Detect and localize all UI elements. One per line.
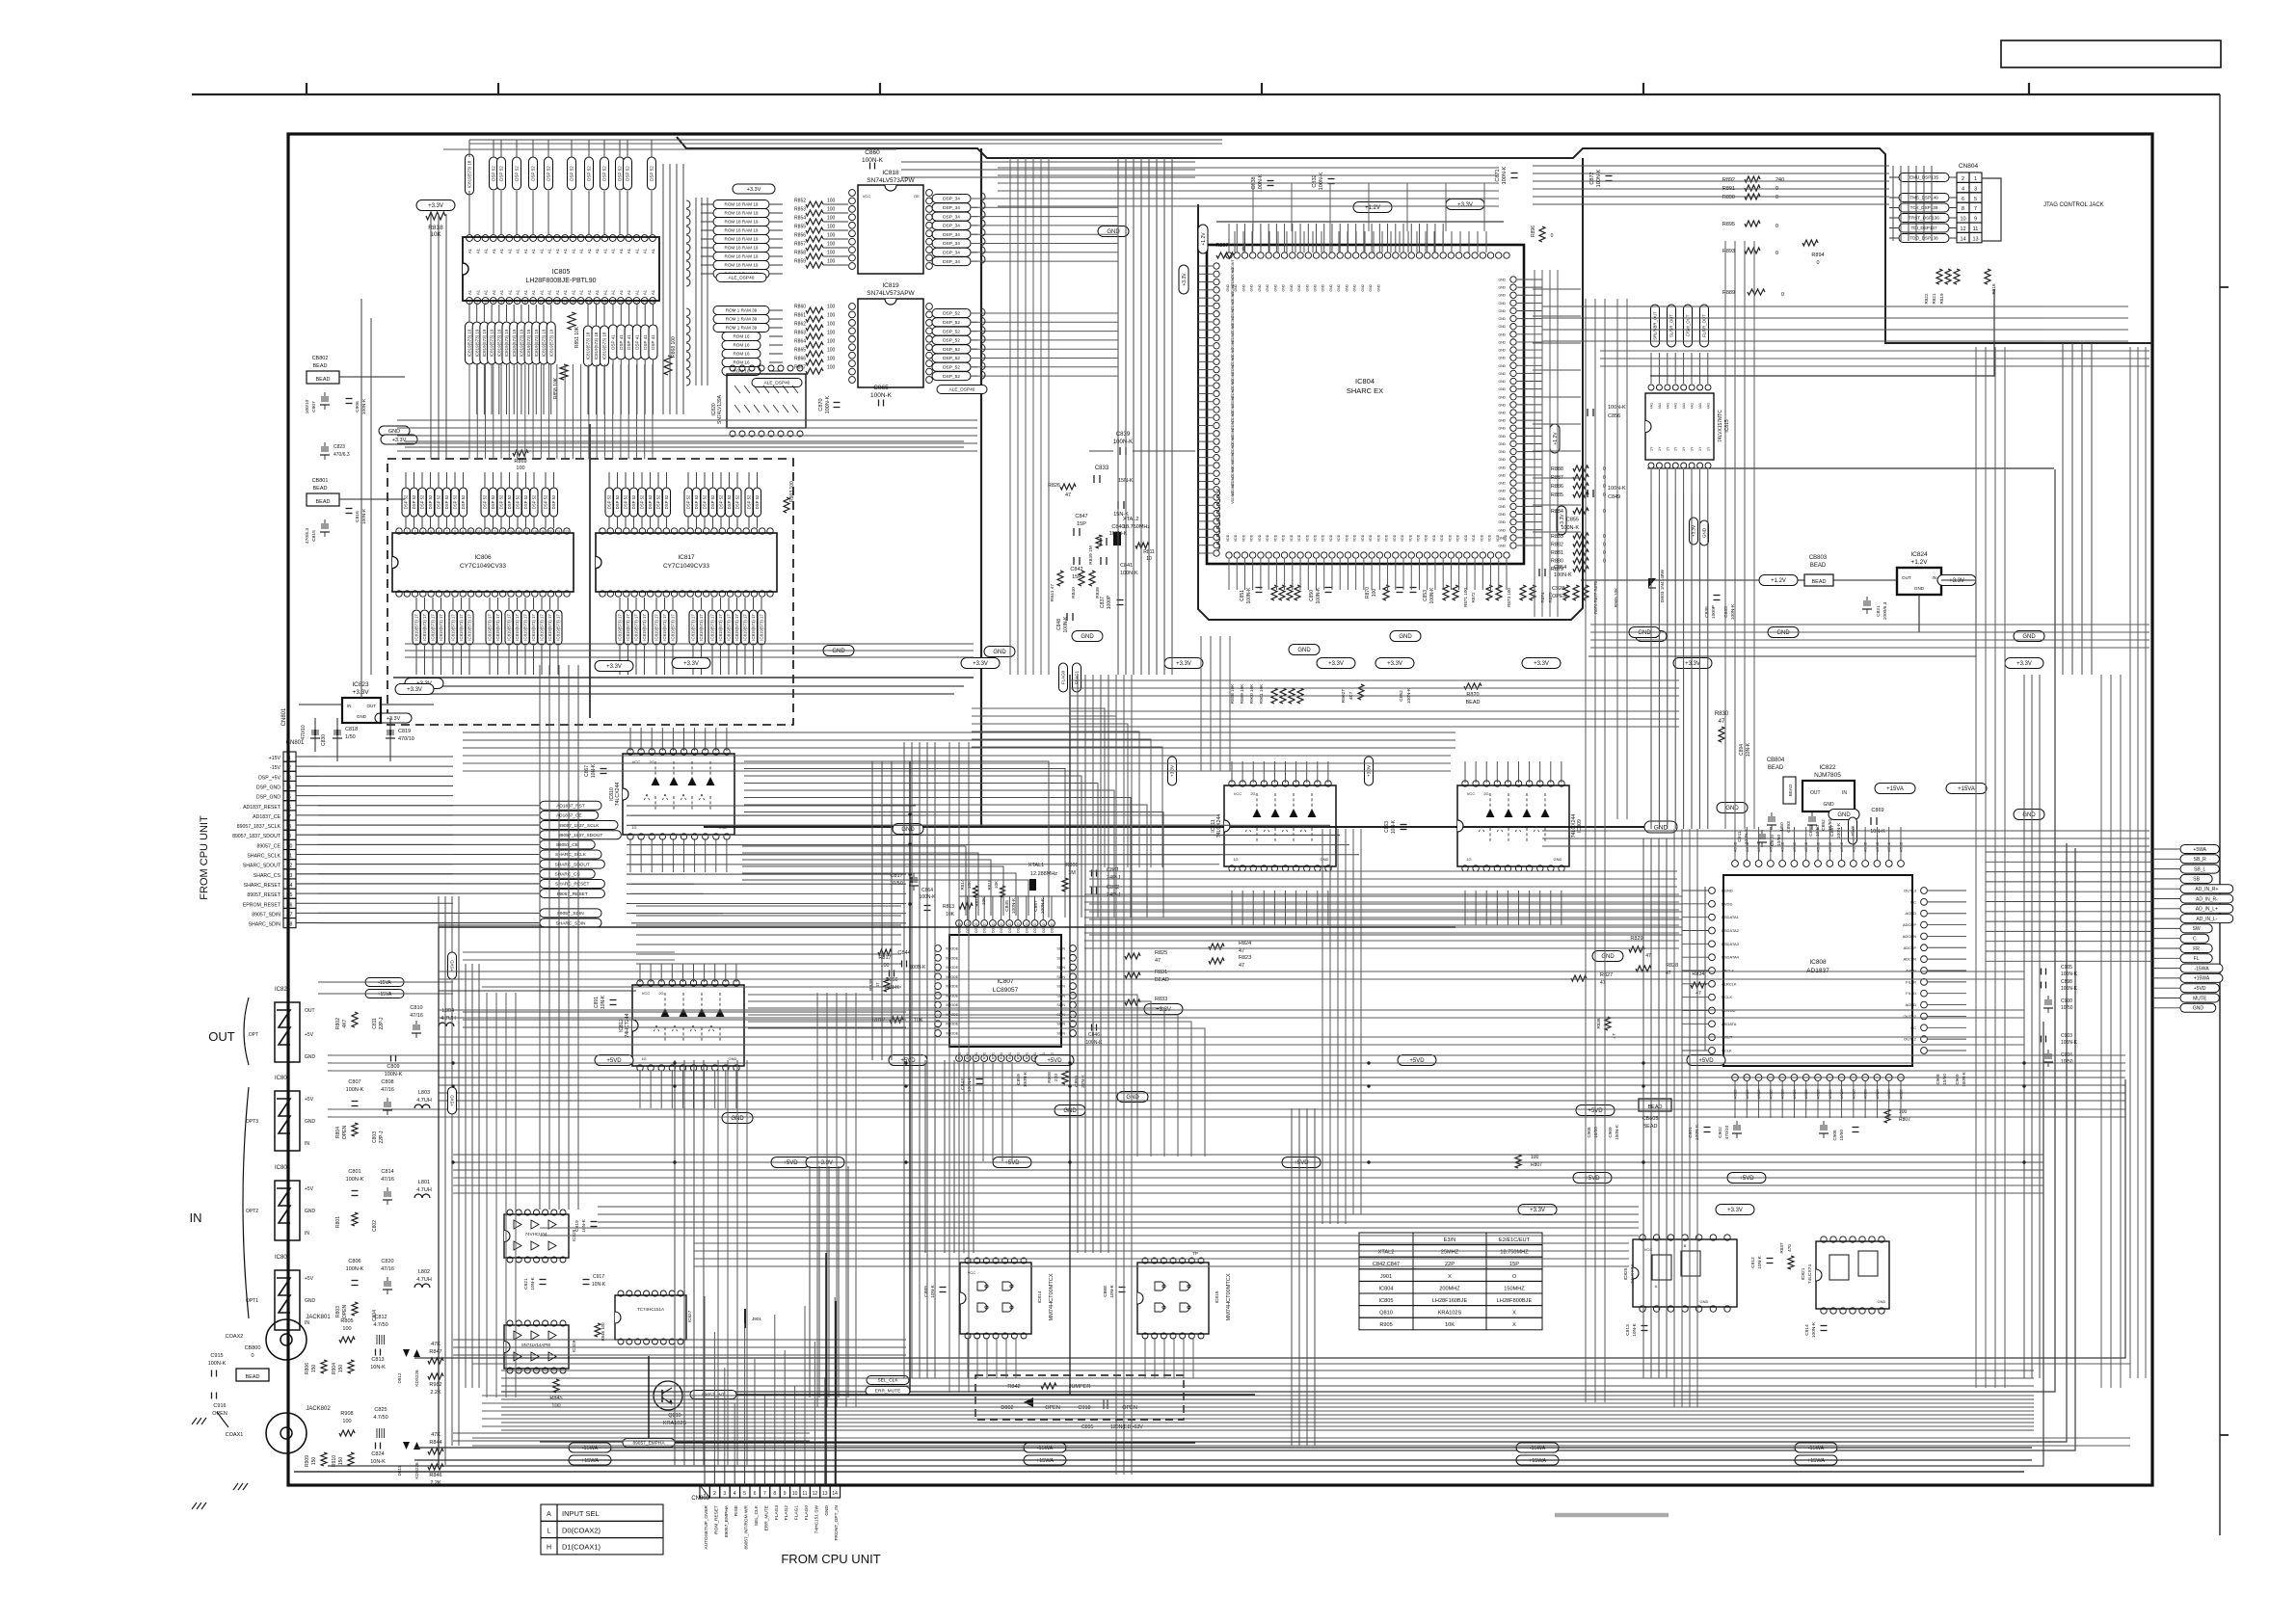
svg-text:470/6.3: 470/6.3 xyxy=(334,452,350,458)
wire cn803 staircase xyxy=(704,1296,706,1465)
svg-text:VDD: VDD xyxy=(1401,534,1404,542)
svg-text:R862: R862 xyxy=(794,322,806,328)
svg-text:DSP 52: DSP 52 xyxy=(515,166,520,181)
wire hbus y1420-1480 xyxy=(501,1370,2034,1371)
svg-text:FLAG0: FLAG0 xyxy=(804,1505,810,1521)
pill 1.2Vl xyxy=(1198,225,1208,253)
svg-text:GND: GND xyxy=(1273,283,1277,291)
svg-text:VDD: VDD xyxy=(1408,534,1412,542)
svg-text:DSP 52: DSP 52 xyxy=(420,494,425,509)
svg-text:ROM 16: ROM 16 xyxy=(733,343,750,348)
svg-text:+15VA: +15VA xyxy=(1886,786,1904,792)
svg-text:GND: GND xyxy=(1399,634,1412,640)
svg-text:4A1: 4A1 xyxy=(1706,403,1710,409)
resistor R807b xyxy=(1515,1155,1521,1168)
svg-text:SHARC_CS: SHARC_CS xyxy=(555,872,580,878)
svg-text:R852: R852 xyxy=(794,199,806,204)
svg-text:100: 100 xyxy=(827,199,836,204)
svg-text:OUT: OUT xyxy=(367,704,377,708)
svg-text:ALRCLK: ALRCLK xyxy=(1722,981,1737,986)
svg-text:ADCLP: ADCLP xyxy=(1904,945,1917,950)
svg-text:GND: GND xyxy=(1498,473,1506,477)
cap C854 xyxy=(1538,569,1540,576)
svg-text:ACND: ACND xyxy=(1887,1089,1891,1100)
svg-text:20: 20 xyxy=(548,530,552,534)
svg-text:DSP_34: DSP_34 xyxy=(943,259,960,265)
svg-text:KRA102S: KRA102S xyxy=(1438,1311,1462,1317)
wire opt outputs right xyxy=(463,1011,906,1013)
svg-text:C845: C845 xyxy=(1004,900,1010,912)
svg-text:C909: C909 xyxy=(1955,1074,1960,1084)
svg-text:C892: C892 xyxy=(1821,819,1827,831)
svg-text:A1: A1 xyxy=(539,289,544,295)
wire sharc left bundle xyxy=(1117,158,1119,675)
svg-text:SN74LV573APW: SN74LV573APW xyxy=(867,290,915,297)
svg-text:CY7C1049CV33: CY7C1049CV33 xyxy=(460,563,506,570)
svg-text:15: 15 xyxy=(509,530,513,534)
pills below IC805 left group xyxy=(466,322,474,364)
svg-text:SRL/SBR_OUT: SRL/SBR_OUT xyxy=(1653,311,1658,340)
svg-text:DSP 52: DSP 52 xyxy=(551,494,556,509)
wire hbus top mem xyxy=(901,161,1195,163)
CN801 net pills xyxy=(540,801,601,810)
svg-text:22P-J: 22P-J xyxy=(379,1131,385,1144)
svg-text:1Y: 1Y xyxy=(1666,446,1669,451)
svg-text:R883: R883 xyxy=(1551,534,1563,540)
svg-text:R831: R831 xyxy=(1155,970,1167,975)
svg-text:FLAG1: FLAG1 xyxy=(1075,670,1080,684)
svg-text:GND: GND xyxy=(1498,286,1506,290)
svg-text:+5VD: +5VD xyxy=(1739,1176,1754,1182)
svg-text:IC803: IC803 xyxy=(275,1255,291,1261)
svg-text:200MHZ: 200MHZ xyxy=(1439,1286,1460,1291)
svg-text:GND: GND xyxy=(1369,283,1373,291)
svg-text:DSP_34: DSP_34 xyxy=(943,224,960,229)
svg-text:AD1837_RESET: AD1837_RESET xyxy=(243,805,281,811)
svg-text:D803 1N4148W: D803 1N4148W xyxy=(1660,569,1666,602)
svg-text:IC819(573) 17: IC819(573) 17 xyxy=(495,614,500,641)
svg-text:+3.3V: +3.3V xyxy=(387,716,401,722)
svg-text:3: 3 xyxy=(484,301,486,305)
svg-text:ROM 18 RAM 19: ROM 18 RAM 19 xyxy=(725,211,759,216)
svg-text:JUMPER: JUMPER xyxy=(1069,1384,1091,1390)
svg-text:IN: IN xyxy=(305,1231,309,1237)
resistor R897 xyxy=(1216,253,1234,258)
svg-text:R881: R881 xyxy=(1551,550,1563,556)
wire vbus 2100-2160 xyxy=(2023,675,2025,1378)
svg-text:8: 8 xyxy=(288,824,291,830)
wire hbus y690 xyxy=(405,643,974,645)
svg-text:2: 2 xyxy=(713,1491,716,1497)
svg-text:GND: GND xyxy=(305,1209,316,1214)
svg-text:AD_IN_R+: AD_IN_R+ xyxy=(2195,887,2218,892)
svg-text:R826: R826 xyxy=(1048,483,1060,489)
svg-text:10N-K: 10N-K xyxy=(530,1276,536,1290)
svg-text:+1.2V: +1.2V xyxy=(1910,559,1928,566)
svg-text:BEAD: BEAD xyxy=(1155,977,1169,983)
svg-text:IC819(573) 17: IC819(573) 17 xyxy=(467,614,472,641)
svg-text:+3.3V: +3.3V xyxy=(747,187,761,193)
svg-text:47: 47 xyxy=(1645,953,1651,959)
wire buffer mid h xyxy=(636,905,901,907)
SRAM dashed box xyxy=(387,459,793,725)
svg-text:XMODE: XMODE xyxy=(946,975,959,979)
svg-text:4.7UH: 4.7UH xyxy=(416,1277,432,1283)
svg-text:SEL_CLK: SEL_CLK xyxy=(877,1378,898,1384)
svg-text:C900: C900 xyxy=(2061,998,2072,1004)
svg-text:C833: C833 xyxy=(1095,466,1109,471)
svg-text:GND: GND xyxy=(1654,824,1669,831)
svg-text:C860: C860 xyxy=(865,149,880,156)
svg-text:XTAL2: XTAL2 xyxy=(1123,517,1138,522)
svg-text:+3.3V: +3.3V xyxy=(1727,1208,1743,1213)
SRAM IC806 xyxy=(392,533,574,592)
svg-text:CB800: CB800 xyxy=(245,1345,261,1351)
svg-text:DSP_52: DSP_52 xyxy=(943,365,960,371)
svg-text:R822: R822 xyxy=(1924,293,1929,304)
wire hbus y1200 xyxy=(453,1154,2043,1156)
svg-text:VDD: VDD xyxy=(1464,534,1468,542)
svg-text:VDD: VDD xyxy=(1250,534,1254,542)
svg-text:R842: R842 xyxy=(1007,1384,1020,1390)
svg-text:18: 18 xyxy=(287,922,293,928)
caps C907 C906 xyxy=(321,396,323,402)
cap C823 xyxy=(321,446,323,452)
svg-text:XMODE: XMODE xyxy=(946,966,959,970)
svg-text:GND: GND xyxy=(1266,283,1269,291)
svg-text:100: 100 xyxy=(827,233,836,239)
svg-text:VDD: VDD xyxy=(1290,534,1294,542)
svg-text:C918: C918 xyxy=(1078,1405,1090,1411)
DSP pills right of IC818 xyxy=(932,195,971,203)
svg-text:DSP_+5V: DSP_+5V xyxy=(258,775,280,781)
svg-text:74LVX157MTC: 74LVX157MTC xyxy=(1718,410,1723,442)
svg-text:R858 10K: R858 10K xyxy=(553,377,559,399)
svg-text:XTAL1: XTAL1 xyxy=(1028,863,1044,868)
svg-text:XMODE: XMODE xyxy=(946,1032,959,1036)
svg-text:ROM 16: ROM 16 xyxy=(733,360,750,365)
svg-text:DSP 52: DSP 52 xyxy=(492,166,496,181)
svg-text:DSP 52: DSP 52 xyxy=(570,166,574,181)
wire bus net pills to center xyxy=(627,805,916,807)
svg-text:AGND: AGND xyxy=(1840,841,1844,852)
svg-text:4A1: 4A1 xyxy=(1691,403,1695,409)
svg-text:A1: A1 xyxy=(587,289,592,295)
svg-text:10: 10 xyxy=(792,1491,798,1497)
svg-text:R884: R884 xyxy=(1551,509,1563,515)
svg-text:DSP 52: DSP 52 xyxy=(626,166,630,181)
svg-text:C825: C825 xyxy=(374,1407,387,1413)
svg-text:21: 21 xyxy=(627,301,630,305)
svg-text:8: 8 xyxy=(524,301,526,305)
svg-text:BEAD: BEAD xyxy=(1768,765,1784,771)
svg-text:6: 6 xyxy=(288,805,291,811)
svg-text:R894: R894 xyxy=(1811,253,1824,258)
pills above SRAM IC806 xyxy=(402,488,410,517)
3.3v pills under sharc xyxy=(1164,658,1203,669)
svg-text:100N-K: 100N-K xyxy=(385,1072,403,1078)
svg-text:1Y: 1Y xyxy=(1658,446,1662,451)
svg-text:IC819(573) 19: IC819(573) 19 xyxy=(496,329,501,357)
svg-text:SB_R: SB_R xyxy=(2194,857,2206,863)
svg-text:+3.3V: +3.3V xyxy=(973,661,988,667)
svg-text:+3.3V: +3.3V xyxy=(352,689,369,696)
resistor R845 xyxy=(553,1379,559,1393)
svg-text:C907: C907 xyxy=(311,401,317,412)
svg-text:R806: R806 xyxy=(305,1363,310,1374)
svg-text:1Y: 1Y xyxy=(1650,446,1654,451)
svg-text:SB: SB xyxy=(2193,877,2200,883)
svg-text:22: 22 xyxy=(565,530,569,534)
svg-text:100: 100 xyxy=(342,1419,351,1424)
resistors R841 R840 R839 xyxy=(1057,571,1063,586)
svg-text:ACND: ACND xyxy=(1793,1089,1797,1100)
svg-text:47: 47 xyxy=(1612,1033,1616,1039)
svg-text:DSP 52: DSP 52 xyxy=(719,494,724,509)
svg-text:FLAG3: FLAG3 xyxy=(774,1505,780,1521)
svg-text:GND: GND xyxy=(1498,497,1506,501)
svg-text:DSP 41: DSP 41 xyxy=(627,334,631,350)
svg-text:GND: GND xyxy=(2193,1006,2204,1012)
svg-text:BEAD: BEAD xyxy=(1466,700,1481,705)
svg-text:C912: C912 xyxy=(1750,1257,1756,1268)
svg-text:C843: C843 xyxy=(960,1078,966,1090)
resistor R848 xyxy=(595,1323,601,1337)
svg-text:IC819(573) 19: IC819(573) 19 xyxy=(534,329,539,357)
svg-text:C851: C851 xyxy=(1240,590,1245,601)
svg-text:GND: GND xyxy=(1498,333,1506,336)
svg-text:VDD: VDD xyxy=(1393,534,1397,542)
svg-text:AGND: AGND xyxy=(1734,841,1738,852)
svg-text:H: H xyxy=(547,1545,551,1552)
svg-text:IC819(573) 17: IC819(573) 17 xyxy=(515,614,520,641)
svg-text:10K: 10K xyxy=(914,1018,923,1024)
svg-text:A1: A1 xyxy=(484,248,489,253)
svg-text:DSP 52: DSP 52 xyxy=(491,494,495,509)
svg-text:-15V: -15V xyxy=(270,765,280,771)
svg-text:R853: R853 xyxy=(794,207,806,213)
svg-text:ALE_DSP40: ALE_DSP40 xyxy=(949,387,975,393)
svg-text:1: 1 xyxy=(468,301,470,305)
svg-text:ROM 16: ROM 16 xyxy=(733,334,750,339)
wire vbus 1645-1665 xyxy=(1585,299,1587,1402)
svg-text:C916: C916 xyxy=(213,1403,226,1409)
svg-text:74LCX74: 74LCX74 xyxy=(1630,1264,1636,1284)
svg-text:+15VA: +15VA xyxy=(378,992,392,998)
section divider top xyxy=(677,137,2152,343)
pills below IC805 DSP group xyxy=(609,325,618,359)
svg-text:100N-K: 100N-K xyxy=(208,1361,227,1367)
wire hbus y1255 xyxy=(598,1206,1639,1208)
wire buffers top feeds xyxy=(463,732,1455,733)
svg-text:ROM 18 RAM 19: ROM 18 RAM 19 xyxy=(725,263,759,268)
svg-text:AGND: AGND xyxy=(1887,841,1891,852)
svg-text:XMODE: XMODE xyxy=(946,947,959,951)
svg-text:C906: C906 xyxy=(1832,1130,1837,1140)
svg-text:NC: NC xyxy=(1910,899,1916,904)
svg-text:SHARC_SDIN: SHARC_SDIN xyxy=(249,922,281,928)
wire ic824 loop xyxy=(1589,580,1976,656)
svg-text:74HCT244: 74HCT244 xyxy=(625,1013,630,1037)
svg-text:R893: R893 xyxy=(1722,249,1735,254)
resistor R851 xyxy=(568,312,575,330)
svg-text:8: 8 xyxy=(1962,206,1964,212)
pill 3.3Vl xyxy=(1179,265,1188,294)
wire jack to ics xyxy=(453,1339,906,1341)
svg-text:14: 14 xyxy=(571,301,574,305)
svg-text:4.7/50: 4.7/50 xyxy=(373,1415,387,1421)
svg-text:74HC151 SW: 74HC151 SW xyxy=(814,1505,819,1534)
wire vbus from memory xyxy=(539,665,541,1210)
svg-text:ACND: ACND xyxy=(1876,1089,1880,1100)
svg-text:11: 11 xyxy=(477,530,481,534)
wire sharc bottom stubs xyxy=(1228,559,1230,590)
svg-text:+15WA: +15WA xyxy=(1807,1458,1825,1464)
wire gnd bus bottom xyxy=(294,1471,2024,1473)
svg-text:4A1: 4A1 xyxy=(1658,403,1662,409)
svg-text:C816: C816 xyxy=(355,511,360,522)
svg-text:IC801: IC801 xyxy=(275,1076,291,1081)
svg-text:AGND: AGND xyxy=(1757,841,1761,852)
svg-text:FROM CPU UNIT: FROM CPU UNIT xyxy=(781,1552,880,1566)
svg-text:+5VD: +5VD xyxy=(450,960,455,971)
sram bottom bus wires xyxy=(393,677,974,678)
right edge net pills xyxy=(2180,845,2219,854)
svg-text:A1: A1 xyxy=(634,248,639,253)
svg-text:150: 150 xyxy=(311,1365,317,1373)
jtag right bracket wire xyxy=(1982,178,2001,241)
svg-text:GND: GND xyxy=(1498,364,1506,368)
svg-text:22P-J: 22P-J xyxy=(379,1017,385,1030)
svg-text:L801: L801 xyxy=(418,1180,430,1185)
pills -15WA +15WA row xyxy=(569,1443,611,1452)
svg-text:DSDATA2: DSDATA2 xyxy=(1722,928,1740,933)
svg-text:AD1837_RST: AD1837_RST xyxy=(556,803,585,809)
svg-text:100N-K: 100N-K xyxy=(1429,587,1435,604)
svg-text:R828: R828 xyxy=(1666,963,1678,969)
svg-text:100N-K: 100N-K xyxy=(346,1177,364,1183)
svg-text:GND: GND xyxy=(1878,1299,1886,1304)
svg-text:R824: R824 xyxy=(1239,941,1251,946)
svg-text:10N-K: 10N-K xyxy=(1109,1284,1115,1297)
svg-text:100: 100 xyxy=(516,466,524,471)
svg-text:12.288MHz: 12.288MHz xyxy=(1030,871,1057,877)
option table xyxy=(1359,1233,1413,1245)
wire ic814 down xyxy=(967,1338,969,1378)
wire opt area verticals xyxy=(486,993,488,1397)
svg-text:+3.3V: +3.3V xyxy=(1182,273,1188,286)
svg-text:DSP_34: DSP_34 xyxy=(943,232,960,238)
svg-text:14: 14 xyxy=(287,883,293,889)
resistors R898-R901 zigzag xyxy=(1271,688,1277,704)
wire right mid h 860 xyxy=(1542,830,2149,832)
wire opt bus vertical xyxy=(438,927,440,1465)
svg-text:R834: R834 xyxy=(1692,971,1704,977)
svg-text:10/50: 10/50 xyxy=(1942,1074,1947,1085)
svg-text:C903: C903 xyxy=(2061,1033,2072,1039)
mux IC816 74LVX157MTC xyxy=(1645,393,1714,460)
svg-text:+5VD: +5VD xyxy=(783,1160,798,1166)
svg-text:IC819(573) 17: IC819(573) 17 xyxy=(662,614,667,641)
resistor R826 xyxy=(1060,484,1076,490)
svg-text:A1: A1 xyxy=(539,248,544,253)
pill ALE_DSP40 b xyxy=(752,379,802,387)
svg-text:+3.3V: +3.3V xyxy=(1328,661,1344,667)
svg-text:C803: C803 xyxy=(372,1131,378,1143)
svg-text:DSP 52: DSP 52 xyxy=(640,494,645,509)
svg-text:J901: J901 xyxy=(752,1317,761,1321)
svg-text:DSP 52: DSP 52 xyxy=(516,494,521,509)
wire right rails to border xyxy=(1590,624,2149,625)
svg-text:10N-K: 10N-K xyxy=(1870,829,1885,835)
svg-text:DSP 41: DSP 41 xyxy=(611,334,616,350)
svg-text:IC822: IC822 xyxy=(1819,764,1836,771)
svg-text:R892: R892 xyxy=(1722,177,1735,183)
svg-text:470: 470 xyxy=(1787,1244,1792,1252)
svg-text:DSP 52: DSP 52 xyxy=(499,494,504,509)
svg-text:KDS226: KDS226 xyxy=(414,1462,419,1479)
svg-text:R868 100: R868 100 xyxy=(671,336,677,358)
svg-text:R840: R840 xyxy=(1071,587,1077,599)
jumper box R842 xyxy=(975,1375,1184,1420)
resistor R896 xyxy=(1539,226,1545,242)
svg-text:R841 47: R841 47 xyxy=(1050,584,1055,601)
svg-text:89057_EMPHA: 89057_EMPHA xyxy=(724,1504,730,1537)
svg-text:C813: C813 xyxy=(371,1357,384,1363)
svg-text:R854: R854 xyxy=(794,216,806,222)
wire nest IC810 to IC807 top xyxy=(744,761,1049,918)
svg-text:18: 18 xyxy=(602,301,606,305)
svg-text:DSP_34: DSP_34 xyxy=(943,205,960,211)
svg-text:100N-K: 100N-K xyxy=(1502,166,1508,184)
svg-text:47/16: 47/16 xyxy=(410,1013,423,1019)
svg-text:100N-K: 100N-K xyxy=(967,1076,973,1092)
svg-text:GND: GND xyxy=(1498,490,1506,493)
svg-text:IN: IN xyxy=(305,1141,309,1147)
svg-text:5: 5 xyxy=(743,1491,746,1497)
svg-text:C811: C811 xyxy=(372,1018,378,1029)
svg-text:IC806: IC806 xyxy=(474,554,492,561)
svg-text:+5VD: +5VD xyxy=(2194,986,2206,992)
svg-text:DSP 52: DSP 52 xyxy=(499,166,504,181)
svg-text:GND: GND xyxy=(1638,630,1651,636)
svg-text:DSP 41: DSP 41 xyxy=(651,334,655,350)
svg-text:R858: R858 xyxy=(794,251,806,256)
svg-text:R855: R855 xyxy=(794,225,806,230)
svg-text:IC805: IC805 xyxy=(1379,1298,1394,1304)
svg-text:R872: R872 xyxy=(1471,592,1476,602)
svg-text:ROM 18 RAM 19: ROM 18 RAM 19 xyxy=(725,202,759,207)
svg-text:8: 8 xyxy=(454,530,456,534)
svg-text:0: 0 xyxy=(1781,292,1784,298)
svg-text:10: 10 xyxy=(539,301,543,305)
svg-text:14: 14 xyxy=(1960,236,1965,242)
pill ALE_DSP40 right xyxy=(937,386,987,394)
svg-text:10N-K: 10N-K xyxy=(370,1459,386,1465)
svg-text:GND: GND xyxy=(1498,450,1506,454)
svg-text:AGND: AGND xyxy=(1905,1002,1916,1007)
svg-text:ADCRP: ADCRP xyxy=(1903,922,1916,927)
svg-text:GND: GND xyxy=(1498,340,1506,344)
svg-text:DSP_34: DSP_34 xyxy=(943,251,960,256)
svg-text:R899 10K: R899 10K xyxy=(1240,683,1244,704)
svg-text:OE: OE xyxy=(914,194,920,199)
svg-text:R830: R830 xyxy=(1715,711,1729,717)
svg-text:ALE_DSP40: ALE_DSP40 xyxy=(764,381,790,386)
svg-text:C808: C808 xyxy=(381,1079,393,1085)
svg-text:A1: A1 xyxy=(492,248,496,253)
svg-text:C857: C857 xyxy=(1033,900,1039,912)
